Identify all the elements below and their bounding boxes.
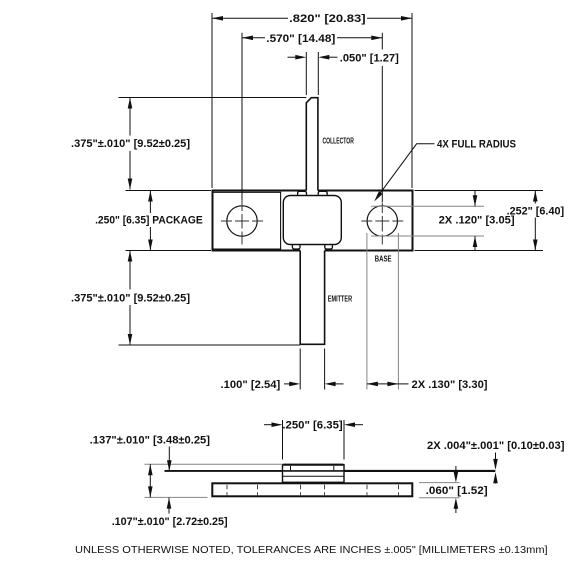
dimension .820 [20.83] overall width bbox=[211, 13, 213, 188]
dimension .137 cap height bbox=[145, 463, 283, 465]
dimension 2X .120 [3.05] hole height bbox=[371, 205, 484, 207]
left mounting hole bbox=[227, 206, 257, 236]
cap bottom braze pads bbox=[292, 245, 300, 250]
dimension .050 [1.27] collector lead width bbox=[305, 52, 307, 95]
left mounting tab inner outline bbox=[214, 192, 281, 249]
svg-text:.050" [1.27]: .050" [1.27] bbox=[340, 52, 399, 64]
dimension 2X .004 lead thickness bbox=[495, 453, 497, 460]
dimension 2X .130 [3.30] hole width bbox=[366, 233, 368, 390]
hidden hole/lead edges (dashed) bbox=[226, 485, 228, 496]
svg-text:UNLESS OTHERWISE NOTED, TOLERA: UNLESS OTHERWISE NOTED, TOLERANCES ARE I… bbox=[75, 544, 548, 556]
left lead (side view) bbox=[165, 470, 283, 472]
svg-text:.250" [6.35] PACKAGE: .250" [6.35] PACKAGE bbox=[95, 214, 203, 226]
emitter lead (plan view) bbox=[300, 251, 324, 345]
right mounting hole bbox=[367, 206, 397, 236]
svg-text:4X FULL RADIUS: 4X FULL RADIUS bbox=[437, 138, 516, 150]
collector lead (plan view) bbox=[306, 98, 318, 191]
dimension .375 lower (emitter lead length) bbox=[119, 344, 301, 346]
svg-text:.570" [14.48]: .570" [14.48] bbox=[266, 33, 335, 45]
svg-text:.820" [20.83]: .820" [20.83] bbox=[289, 13, 366, 25]
svg-text:COLLECTOR: COLLECTOR bbox=[323, 136, 355, 145]
ceramic cap (side view) bbox=[283, 465, 345, 483]
dimension .107 lead height bbox=[168, 447, 170, 472]
svg-text:.100" [2.54]: .100" [2.54] bbox=[221, 379, 281, 391]
svg-text:.137"±.010" [3.48±0.25]: .137"±.010" [3.48±0.25] bbox=[90, 435, 211, 447]
dimension .570 [14.48] hole spacing bbox=[241, 33, 243, 200]
dimension .100 [2.54] emitter lead width bbox=[299, 349, 301, 390]
svg-text:.252" [6.40]: .252" [6.40] bbox=[507, 205, 565, 217]
svg-text:.060" [1.52]: .060" [1.52] bbox=[426, 485, 488, 497]
svg-text:2X .120" [3.05]: 2X .120" [3.05] bbox=[439, 214, 515, 226]
svg-text:BASE: BASE bbox=[375, 254, 392, 263]
svg-text:.250" [6.35]: .250" [6.35] bbox=[282, 420, 343, 432]
svg-text:2X .130" [3.30]: 2X .130" [3.30] bbox=[412, 379, 488, 391]
svg-text:.107"±.010" [2.72±0.25]: .107"±.010" [2.72±0.25] bbox=[112, 516, 228, 528]
cap interior lead plane bbox=[283, 470, 345, 472]
dimension .060 [1.52] flange thickness bbox=[419, 482, 460, 484]
svg-text:.375"±.010" [9.52±0.25]: .375"±.010" [9.52±0.25] bbox=[71, 138, 190, 150]
dimension .252 [6.40] flange height bbox=[415, 190, 544, 192]
dimension .250 [6.35] PACKAGE bbox=[126, 250, 212, 252]
cap top braze pads bbox=[298, 191, 307, 195]
dimension .250 [6.35] cap width (side) bbox=[282, 420, 284, 460]
leader 4X FULL RADIUS bbox=[377, 144, 435, 198]
svg-text:.375"±.010" [9.52±0.25]: .375"±.010" [9.52±0.25] bbox=[71, 292, 190, 304]
flange (side view) bbox=[212, 483, 412, 496]
flange outline (plan view) bbox=[212, 190, 414, 252]
dimension .375 upper (collector lead length) bbox=[119, 97, 307, 99]
svg-text:EMITTER: EMITTER bbox=[328, 295, 352, 304]
right hole centerlines bbox=[361, 220, 403, 222]
ceramic cap (plan view) bbox=[283, 196, 341, 245]
svg-text:2X .004"±.001" [0.10±0.03]: 2X .004"±.001" [0.10±0.03] bbox=[427, 440, 565, 452]
right lead (side view) bbox=[344, 470, 495, 472]
left hole centerlines bbox=[221, 220, 263, 222]
